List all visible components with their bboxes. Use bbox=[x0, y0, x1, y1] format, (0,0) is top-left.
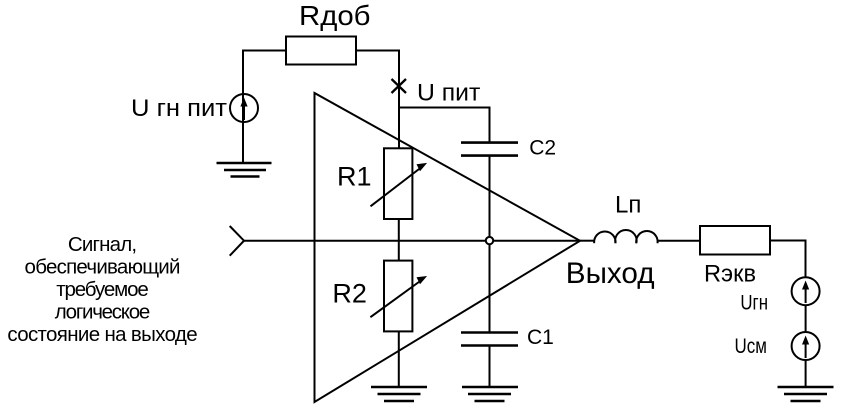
wire U пит node to C2 column bbox=[399, 108, 490, 142]
voltage source Uсм bbox=[792, 332, 820, 360]
ground below C1 bbox=[462, 387, 518, 401]
svg-text:Lп: Lп bbox=[615, 192, 641, 219]
wire C2 bottom to output node bbox=[489, 157, 491, 241]
wire node to C1 top bbox=[489, 241, 491, 332]
input signal caption bbox=[7, 233, 197, 346]
svg-text:Выход: Выход bbox=[566, 257, 655, 290]
ground below U гн пит bbox=[217, 163, 272, 177]
arrow on R1 bbox=[371, 163, 428, 206]
resistor Rэкв bbox=[700, 226, 770, 255]
svg-text:U гн пит: U гн пит bbox=[131, 95, 227, 122]
wire apex to inductor bbox=[580, 240, 594, 242]
capacitor C1 bbox=[461, 333, 518, 346]
capacitor C2 bbox=[461, 143, 518, 156]
resistor R2 (variable) bbox=[384, 261, 412, 332]
svg-text:R2: R2 bbox=[332, 278, 367, 308]
wire from U gn pit source up to Rdob left bbox=[243, 51, 286, 164]
svg-text:C1: C1 bbox=[527, 326, 554, 349]
svg-text:R1: R1 bbox=[337, 162, 372, 192]
svg-text:Uгн: Uгн bbox=[740, 290, 768, 314]
ground below R2 bbox=[371, 387, 427, 401]
output node circle bbox=[486, 237, 493, 244]
wire from Rdob right down to R1 column bbox=[356, 51, 399, 149]
svg-text:C2: C2 bbox=[529, 137, 556, 160]
X mark at U пит node bbox=[392, 79, 407, 93]
op-amp triangle bbox=[315, 93, 581, 402]
arrow on R2 bbox=[370, 276, 427, 317]
voltage source Uгн bbox=[792, 277, 820, 305]
wire C1 bottom to ground bbox=[489, 347, 491, 388]
ground right column bbox=[778, 387, 834, 401]
input terminal Y bbox=[230, 226, 244, 256]
svg-text:Rэкв: Rэкв bbox=[704, 261, 756, 288]
svg-text:Uсм: Uсм bbox=[735, 334, 767, 358]
resistor R1 (variable) bbox=[384, 148, 412, 219]
wire Rэкв to right column bbox=[770, 241, 806, 278]
svg-text:состояние на выходе: состояние на выходе bbox=[7, 323, 197, 346]
svg-text:логическое: логическое bbox=[55, 301, 151, 324]
voltage source U гн пит bbox=[230, 94, 258, 122]
svg-text:U пит: U пит bbox=[417, 79, 480, 106]
inductor Lп bbox=[594, 230, 657, 243]
svg-text:обеспечивающий: обеспечивающий bbox=[25, 256, 181, 279]
svg-text:Rдоб: Rдоб bbox=[299, 0, 371, 31]
wire Uсм to ground bbox=[805, 360, 807, 387]
svg-text:Сигнал,: Сигнал, bbox=[68, 233, 137, 256]
svg-text:требуемое: требуемое bbox=[56, 278, 149, 301]
wire inductor to Rэкв bbox=[658, 240, 701, 242]
wire Uгн to Uсм bbox=[805, 305, 807, 332]
wire R1 bottom to R2 top bbox=[398, 219, 400, 261]
resistor Rдоб bbox=[286, 37, 356, 65]
wire R2 bottom to ground bbox=[398, 331, 400, 387]
wire input to apex (mid line) bbox=[244, 240, 580, 242]
